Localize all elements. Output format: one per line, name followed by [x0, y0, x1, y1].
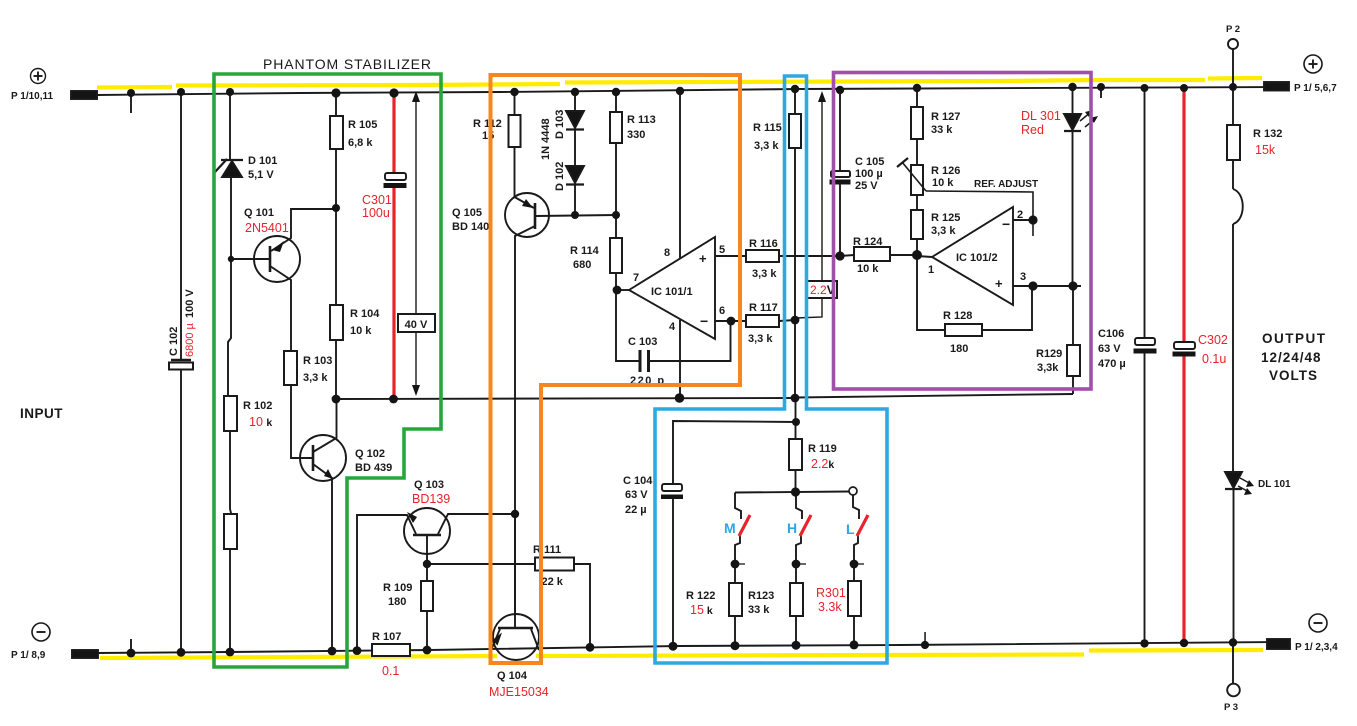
resistor R125 — [911, 210, 923, 239]
wire: Q105 base row y215 — [536, 215, 616, 216]
transistor Q104 — [493, 614, 539, 660]
svg-text:180: 180 — [388, 596, 406, 608]
svg-text:OUTPUT: OUTPUT — [1262, 331, 1327, 346]
switch L red lever — [857, 515, 868, 536]
svg-text:33 k: 33 k — [931, 124, 953, 136]
svg-text:100 µ: 100 µ — [855, 168, 883, 180]
resistor R111 — [427, 563, 535, 565]
svg-text:5: 5 — [719, 244, 725, 256]
svg-text:R 128: R 128 — [943, 310, 972, 322]
capacitor C302 plates — [1174, 342, 1195, 349]
svg-text:63 V: 63 V — [1098, 343, 1121, 355]
resistor R104 — [330, 305, 343, 340]
measurement arrow 40V — [415, 98, 417, 390]
svg-text:P 1/10,11: P 1/10,11 — [11, 91, 54, 102]
resistor R109 — [421, 581, 433, 611]
resistor R116 — [746, 250, 779, 262]
svg-text:1: 1 — [928, 264, 934, 276]
svg-text:C 102: C 102 — [168, 327, 180, 356]
resistor R129 — [1067, 345, 1080, 376]
svg-text:2: 2 — [1017, 209, 1023, 221]
op-amp IC101/2 — [932, 207, 1013, 305]
resistor (unlabeled) lower left — [224, 514, 237, 549]
svg-text:R 122: R 122 — [686, 590, 715, 602]
svg-text:3,3 k: 3,3 k — [752, 268, 777, 280]
svg-text:Q 101: Q 101 — [244, 207, 274, 219]
svg-text:8: 8 — [664, 247, 670, 259]
svg-text:R 126: R 126 — [931, 165, 960, 177]
svg-text:Q 104: Q 104 — [497, 670, 528, 682]
svg-text:Q 103: Q 103 — [414, 479, 444, 491]
svg-text:D 101: D 101 — [248, 155, 277, 167]
svg-text:BD 439: BD 439 — [355, 462, 392, 474]
svg-text:PHANTOM STABILIZER: PHANTOM STABILIZER — [263, 56, 432, 72]
svg-text:BD139: BD139 — [412, 492, 450, 506]
resistor R112 — [509, 115, 521, 147]
transistor Q105 — [505, 193, 549, 237]
annotation box green (phantom stabilizer) — [214, 74, 441, 667]
svg-text:680: 680 — [573, 259, 591, 271]
wire: switch bus row — [735, 492, 849, 493]
svg-text:15k: 15k — [1255, 143, 1276, 157]
svg-text:470 µ: 470 µ — [1098, 358, 1126, 370]
connector P1/5,6,7 terminal — [1264, 82, 1289, 91]
resistor R115 — [789, 114, 801, 148]
svg-text:Q 105: Q 105 — [452, 207, 482, 219]
svg-text:C 105: C 105 — [855, 156, 884, 168]
annotation box blue — [655, 76, 887, 663]
svg-text:6: 6 — [719, 305, 725, 317]
switch L — [853, 495, 859, 519]
loop symbol on output line — [1233, 189, 1243, 224]
svg-text:6,8 k: 6,8 k — [348, 137, 373, 149]
svg-text:R 113: R 113 — [627, 114, 656, 126]
svg-text:R 112: R 112 — [473, 118, 502, 130]
svg-text:R 105: R 105 — [348, 119, 377, 131]
resistor R113 — [610, 112, 622, 143]
svg-text:R 124: R 124 — [853, 236, 883, 248]
capacitor C105 — [839, 90, 841, 171]
measurement arrow 2.2V — [796, 98, 822, 318]
annotation box orange — [491, 75, 741, 663]
svg-text:3,3 k: 3,3 k — [303, 372, 328, 384]
svg-text:0.1: 0.1 — [382, 664, 399, 678]
svg-text:3,3 k: 3,3 k — [754, 140, 779, 152]
svg-text:2.2V: 2.2V — [810, 283, 835, 297]
svg-text:IC 101/2: IC 101/2 — [956, 252, 998, 264]
svg-text:C 104: C 104 — [623, 475, 653, 487]
wire: bottom -rail — [96, 642, 1283, 653]
svg-text:+: + — [995, 276, 1003, 291]
svg-text:25 V: 25 V — [855, 180, 878, 192]
svg-text:P 1/ 5,6,7: P 1/ 5,6,7 — [1294, 83, 1337, 94]
svg-text:10 k: 10 k — [249, 415, 272, 429]
capacitor C106 — [1144, 88, 1146, 338]
resistor R301 — [848, 581, 861, 616]
svg-text:H: H — [787, 520, 797, 536]
svg-text:22 k: 22 k — [542, 576, 564, 588]
resistor R103 — [284, 351, 297, 385]
node stub x130 bottom — [130, 639, 132, 654]
LED DL301 — [1072, 87, 1074, 114]
svg-text:180: 180 — [950, 343, 968, 355]
svg-text:R 103: R 103 — [303, 355, 332, 367]
svg-text:R 114: R 114 — [570, 245, 600, 257]
capacitor C104 — [673, 421, 796, 484]
svg-text:2.2k: 2.2k — [811, 457, 834, 471]
zener diode D101 — [229, 92, 231, 160]
svg-text:22 µ: 22 µ — [625, 504, 647, 516]
svg-text:P 1/ 2,3,4: P 1/ 2,3,4 — [1295, 642, 1338, 653]
resistor R123 — [790, 583, 803, 616]
svg-text:M: M — [724, 520, 736, 536]
svg-text:3,3k: 3,3k — [1037, 362, 1059, 374]
svg-text:P 3: P 3 — [1224, 702, 1238, 713]
connector P1/10,11 terminal — [31, 69, 46, 84]
svg-text:R 107: R 107 — [372, 631, 401, 643]
highlighter: bottom yellow line — [100, 656, 497, 658]
capacitor C102 — [180, 92, 182, 360]
svg-text:40 V: 40 V — [405, 319, 428, 331]
wire: Q101 base — [231, 258, 269, 260]
resistor R107 — [372, 644, 410, 656]
switch H red lever — [800, 515, 811, 536]
svg-text:REF. ADJUST: REF. ADJUST — [974, 179, 1038, 190]
connector P2 — [1228, 39, 1238, 49]
svg-text:R 125: R 125 — [931, 212, 960, 224]
svg-text:R 117: R 117 — [749, 302, 778, 314]
svg-text:1N 4448: 1N 4448 — [540, 118, 552, 160]
svg-text:−: − — [1002, 216, 1010, 232]
svg-text:3: 3 — [1020, 271, 1026, 283]
svg-text:10 k: 10 k — [932, 177, 954, 189]
svg-text:−: − — [700, 313, 708, 329]
svg-text:IC 101/1: IC 101/1 — [651, 286, 693, 298]
connector P1/8,9 terminal — [32, 623, 50, 641]
connector P3 — [1232, 642, 1234, 683]
connector P1/2,3,4 terminal — [1267, 639, 1290, 649]
svg-text:10 k: 10 k — [857, 263, 879, 275]
svg-text:2N5401: 2N5401 — [245, 221, 289, 235]
node stub x1101 top — [1100, 87, 1102, 98]
transistor Q103 — [404, 508, 450, 554]
svg-text:VOLTS: VOLTS — [1269, 368, 1318, 383]
svg-text:4: 4 — [669, 321, 676, 333]
svg-text:DL 301: DL 301 — [1021, 109, 1061, 123]
resistor R128 feedback — [917, 255, 945, 330]
node stub x131 top — [130, 93, 132, 113]
node stub x925 bottom — [924, 632, 926, 645]
svg-text:R 115: R 115 — [753, 122, 782, 134]
resistor R132 — [1227, 125, 1240, 160]
svg-text:R 132: R 132 — [1253, 128, 1282, 140]
resistor R117 — [746, 315, 779, 327]
svg-text:R 119: R 119 — [808, 443, 837, 455]
svg-text:C302: C302 — [1198, 333, 1228, 347]
svg-text:Q 102: Q 102 — [355, 448, 385, 460]
svg-text:R 111: R 111 — [533, 544, 561, 556]
resistor R102 — [224, 396, 237, 431]
resistor R114 — [610, 238, 622, 273]
svg-text:0.1u: 0.1u — [1202, 352, 1226, 366]
wire: top +rail — [97, 87, 1283, 95]
svg-text:3,3 k: 3,3 k — [931, 225, 956, 237]
LED DL101 — [1225, 472, 1242, 488]
resistor R122 — [729, 583, 742, 616]
svg-text:C 103: C 103 — [628, 336, 657, 348]
diode D103 — [574, 92, 576, 111]
svg-text:R301: R301 — [816, 586, 846, 600]
svg-text:10 k: 10 k — [350, 325, 372, 337]
svg-text:R 127: R 127 — [931, 111, 960, 123]
svg-text:C301: C301 — [362, 193, 392, 207]
resistor R119 — [795, 398, 797, 439]
resistor R127 — [911, 107, 923, 139]
svg-text:3.3k: 3.3k — [818, 600, 842, 614]
svg-text:R123: R123 — [748, 590, 774, 602]
svg-text:P 1/ 8,9: P 1/ 8,9 — [11, 650, 46, 661]
svg-text:P 2: P 2 — [1226, 24, 1240, 35]
switch M — [735, 493, 741, 520]
junction dots bottom rail — [127, 649, 136, 658]
transistor Q101 — [254, 236, 300, 282]
junction dots mid circuit — [228, 256, 234, 262]
resistor R105 — [330, 116, 343, 149]
capacitor C103 — [616, 290, 640, 361]
svg-text:INPUT: INPUT — [20, 406, 63, 421]
svg-text:D 103: D 103 — [554, 110, 566, 139]
svg-text:DL 101: DL 101 — [1258, 479, 1291, 490]
svg-text:+: + — [699, 251, 707, 266]
diode D102 — [566, 166, 584, 183]
svg-text:R129: R129 — [1036, 348, 1062, 360]
op-amp IC101/1 — [629, 237, 715, 339]
junction dots top rail — [127, 89, 135, 97]
svg-text:R 102: R 102 — [243, 400, 272, 412]
svg-text:R 104: R 104 — [350, 308, 380, 320]
svg-text:L: L — [846, 521, 855, 537]
wire: mid node row y399 — [336, 398, 795, 399]
svg-text:7: 7 — [633, 272, 639, 284]
svg-text:63 V: 63 V — [625, 489, 648, 501]
svg-text:33 k: 33 k — [748, 604, 770, 616]
svg-text:12/24/48: 12/24/48 — [1261, 350, 1322, 365]
highlighter: top yellow line — [97, 85, 172, 90]
trimmer R126 — [911, 165, 923, 195]
switch M red lever — [739, 515, 750, 536]
annotation box purple — [834, 73, 1092, 390]
svg-text:Red: Red — [1021, 123, 1044, 137]
svg-text:100 V: 100 V — [184, 289, 196, 318]
svg-text:15 k: 15 k — [690, 603, 713, 617]
junction dots switch contacts — [731, 560, 740, 569]
transistor Q102 — [300, 435, 346, 481]
resistor R124 — [840, 255, 854, 256]
capacitor C301 red trace — [392, 93, 395, 174]
capacitor C301 plates — [385, 173, 406, 180]
svg-text:C106: C106 — [1098, 328, 1124, 340]
svg-text:R 116: R 116 — [749, 238, 778, 250]
svg-text:MJE15034: MJE15034 — [489, 685, 549, 699]
switch H — [796, 493, 802, 520]
svg-text:6800 µ: 6800 µ — [184, 322, 196, 357]
svg-text:330: 330 — [627, 129, 645, 141]
svg-text:R 109: R 109 — [383, 582, 412, 594]
svg-text:D 102: D 102 — [554, 162, 566, 191]
svg-text:3,3 k: 3,3 k — [748, 333, 773, 345]
svg-text:100u: 100u — [362, 206, 390, 220]
capacitor C302 red trace — [1182, 89, 1185, 342]
svg-text:5,1 V: 5,1 V — [248, 169, 274, 181]
svg-text:BD 140: BD 140 — [452, 221, 489, 233]
